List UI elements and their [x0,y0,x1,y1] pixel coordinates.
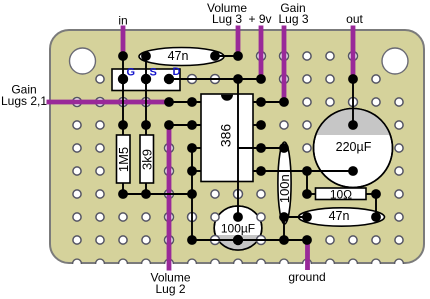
node U1 pin 7 [256,120,266,130]
wire out column down to 220uF plus [352,79,354,125]
wire +9v branch to pin 6 and 100n [238,147,284,149]
node 100n ground junction [279,235,289,245]
wire pin 7 stub [253,124,261,126]
pass-through hole rings under wires [73,52,358,245]
node +9v junction [233,74,243,84]
wire ground row left [123,193,192,195]
node zobel junction [302,166,312,176]
capacitor C5 47n (zobel) body [299,208,385,226]
node +9v pad [256,74,266,84]
wire R1 lower lead [122,183,124,194]
node C3 plus pad [348,120,358,130]
svg-text:S: S [150,67,157,79]
perfboard [50,30,424,263]
node in pad [118,51,128,61]
wire 100n bottom to ground row [283,217,285,240]
node Q1 source pad [141,74,151,84]
node U1 pin 8 [256,97,266,107]
node U1 pin 2 [187,120,197,130]
node ground pad [302,235,312,245]
wire in / gate column [122,56,124,135]
wire 10ohm left stub [307,193,316,195]
transistor Q1 body (G S D box) [112,69,180,91]
node U1 pin 3 [187,143,197,153]
wires (black) [123,56,376,240]
wire in lead [121,26,126,57]
svg-text:Lugs 2,1: Lugs 2,1 [1,94,47,108]
bottom edge notches [73,259,404,268]
mounting hole top-right [382,48,408,74]
wire pin 3 stub [192,147,201,149]
wire pin 4 stub [192,170,201,172]
resistor R1 1M5 body [117,135,131,183]
svg-text:3k9: 3k9 [140,149,155,170]
empty holes grid [73,52,403,244]
capacitor C3 220uF body [314,109,393,188]
node C2 bottom pad [279,212,289,222]
mounting hole top-left [70,48,96,74]
svg-text:ground: ground [288,270,325,284]
svg-text:386: 386 [217,124,233,148]
svg-text:1M5: 1M5 [116,147,131,172]
wire ground column pins 3,4 [191,148,193,240]
node U1 pin 5 [256,166,266,176]
svg-text:out: out [346,12,363,26]
node Q1 gate pad [118,74,128,84]
node ground row junction [187,189,197,199]
wire R2 lower lead [145,183,147,194]
node out pad [348,74,358,84]
wire volume lug 2 to pin 2 [169,124,201,126]
wire 47n left / source column [145,56,147,135]
node volume lug 3 pad [233,51,243,61]
svg-text:Lug 3: Lug 3 [212,12,242,26]
wire gain lugs 2,1 to pin 1 [169,101,201,103]
svg-text:D: D [173,66,181,78]
svg-text:10Ω: 10Ω [330,188,352,202]
node C5 left pad [302,212,312,222]
op-amp U1 pin-1 notch [221,95,233,101]
svg-text:G: G [127,67,136,79]
resistor R3 10ohm body [316,188,367,200]
node C4 minus pad [233,235,243,245]
wire pin 8 to gain lug 3 [253,101,284,103]
solder dots [118,51,381,245]
node U1 pin 4 [187,166,197,176]
node C1 left pad [141,51,151,61]
node U1 pin 6 [256,143,266,153]
node R2 bottom [141,189,151,199]
node R3 right [371,189,381,199]
wire drain row to +9v [169,78,261,80]
resistor R2 3k9 body [140,135,154,183]
node C3 minus pad [348,166,358,176]
wire gain lug 3 lead [282,26,287,103]
svg-text:Lug 2: Lug 2 [155,282,185,296]
node R1 top [118,120,128,130]
wire ground lead [305,240,310,270]
node R2 top [141,120,151,130]
wire gain lugs 2,1 lead [47,100,170,105]
svg-text:47n: 47n [168,49,189,63]
svg-text:+ 9v: + 9v [248,12,271,26]
capacitor C4 100uF body [214,206,262,250]
node volume lug 2 pad [164,120,174,130]
wire 10ohm right stub [366,193,376,195]
wire +9v lead [259,26,264,80]
wire out lead [351,26,356,80]
capacitor C2 100n body [278,142,291,224]
node C1 right pad [210,51,220,61]
node C2 top pad [279,143,289,153]
svg-text:220µF: 220µF [336,140,372,154]
node R1 bottom [118,189,128,199]
wire 10ohm right to 47n right [375,194,377,217]
node gain lugs 2,1 pad [164,97,174,107]
svg-text:in: in [118,14,127,28]
capacitor C1 47n (input) body [139,48,224,66]
external connection lines (purple) [47,26,354,271]
svg-text:Lug 3: Lug 3 [278,12,308,26]
node C4 plus pad [233,212,243,222]
node U1 pin 1 [187,97,197,107]
wire pin5 node down to 10ohm left [306,171,308,194]
wire +9v column down to 100uF [237,79,239,217]
node Q1 drain pad [164,74,174,84]
node R3 left [302,189,312,199]
op-amp U1 386 body [201,94,253,182]
wire 47n right to Volume-Lug-3 node [215,55,238,57]
svg-text:47n: 47n [329,209,350,223]
node gain lug 3 pad [279,97,289,107]
wire volume lug 3 lead [236,26,241,57]
svg-text:100µF: 100µF [221,222,255,236]
node ground row left [187,235,197,245]
svg-text:100n: 100n [277,174,292,203]
wire volume lug 2 lead [167,125,172,271]
node C5 right pad [371,212,381,222]
wire ground row bottom [192,239,307,241]
wire pin 5 row to 220uF minus [253,170,353,172]
wire 100n bottom to 47n left [284,216,307,218]
